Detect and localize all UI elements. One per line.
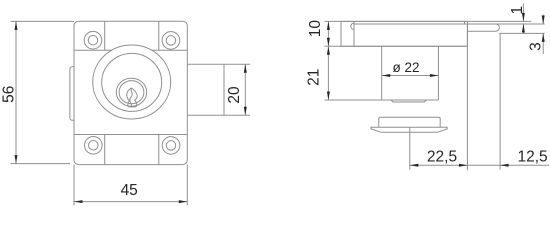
svg-text:21: 21 (305, 69, 322, 86)
svg-text:20: 20 (226, 86, 243, 104)
svg-text:12,5: 12,5 (518, 149, 548, 166)
svg-text:56: 56 (1, 86, 18, 103)
svg-text:22,5: 22,5 (427, 149, 457, 166)
svg-text:45: 45 (121, 182, 138, 199)
svg-text:1: 1 (509, 6, 526, 15)
svg-text:ø 22: ø 22 (392, 60, 419, 75)
svg-text:3: 3 (528, 42, 545, 51)
svg-text:10: 10 (307, 20, 324, 38)
